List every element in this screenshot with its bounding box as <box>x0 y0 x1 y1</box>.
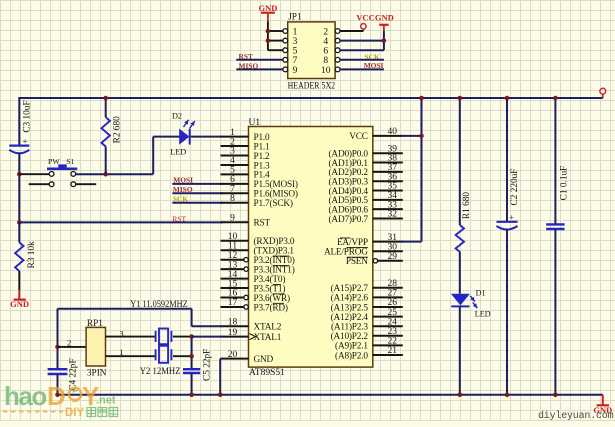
U1 pin 15 stub <box>221 287 249 289</box>
JP1 pin 4 <box>335 38 340 43</box>
resistor R2 680 <box>102 117 110 146</box>
node junction C4/ground <box>55 393 60 398</box>
wire ground bottom rail <box>57 394 603 396</box>
JP1 pin 8 <box>335 57 340 62</box>
svg-text:R3 10k: R3 10k <box>27 241 37 268</box>
wire S1 to R2 junction and LED corner <box>76 173 153 175</box>
wire R2 to switch row <box>105 147 107 175</box>
wire XTAL2 from U1 pin18 <box>192 325 223 327</box>
wire pin 31 to VCC drop <box>402 241 422 243</box>
wire C4 to ground rail <box>57 375 59 395</box>
wire JP1 pin6 stub <box>340 49 384 51</box>
svg-text:28: 28 <box>388 279 398 289</box>
svg-text:(RXD)P3.0: (RXD)P3.0 <box>254 236 295 247</box>
svg-text:GND: GND <box>10 299 29 309</box>
wire RP1 pin 2 <box>58 346 87 348</box>
wire JP1 pin9 MISO <box>236 68 283 70</box>
JP1 pin 1 <box>283 29 288 34</box>
ground GND bottom-right <box>602 395 604 405</box>
svg-text:2: 2 <box>67 337 71 347</box>
U1 pin 40 stub <box>373 135 403 137</box>
svg-text:4: 4 <box>323 37 328 47</box>
svg-text:R2 680: R2 680 <box>113 116 123 143</box>
svg-text:ALE/PROG: ALE/PROG <box>324 248 368 258</box>
wire JP1 pin7 RST <box>236 59 283 61</box>
wire GND stem to pins 1/3/5 <box>267 22 269 51</box>
node junction pin1 <box>266 29 271 34</box>
U1 pin 37 stub <box>373 171 403 173</box>
wire S1 lower-left stub <box>29 183 49 185</box>
wire rail to C2 <box>506 98 508 222</box>
JP1 pin 10 <box>335 67 340 72</box>
wire corner up to LED row <box>152 137 154 175</box>
U1 pin 14 stub <box>221 278 249 280</box>
svg-text:30: 30 <box>388 242 398 252</box>
svg-text:XTAL2: XTAL2 <box>254 323 282 333</box>
node junction C1/ground <box>553 393 558 398</box>
U1 pin 27 stub <box>373 296 403 298</box>
svg-text:+: + <box>509 212 514 222</box>
U1 pin 24 stub <box>373 325 403 327</box>
node VCC terminal top-right <box>602 94 604 98</box>
svg-text:LED: LED <box>170 148 186 157</box>
resistor-pack RP1 3PIN <box>86 327 105 366</box>
svg-text:R1 680: R1 680 <box>462 192 472 219</box>
svg-text:GND: GND <box>258 3 277 13</box>
U1 pin 39 stub <box>373 152 403 154</box>
U1 pin 34 stub <box>373 199 403 201</box>
wire VCC vertical to pin40/pin31 <box>421 98 423 242</box>
wire MOSI to U1 pin 6 <box>172 183 222 185</box>
svg-text:S1: S1 <box>66 157 74 166</box>
capacitor C1 0.1uF <box>546 223 564 225</box>
U1 overline RD <box>273 302 284 304</box>
svg-text:25: 25 <box>388 308 398 318</box>
svg-text:XTAL1: XTAL1 <box>254 333 282 343</box>
svg-text:7: 7 <box>293 56 298 66</box>
svg-text:(A11)P2.3: (A11)P2.3 <box>331 322 368 333</box>
svg-text:26: 26 <box>388 298 398 308</box>
node junction rail/VCC drop <box>419 96 424 101</box>
U1 pin 23 stub <box>373 335 403 337</box>
svg-text:LED: LED <box>475 309 491 318</box>
svg-text:3PIN: 3PIN <box>87 369 107 379</box>
U1 pin 26 stub <box>373 306 403 308</box>
U1 overline INT0 <box>273 255 290 257</box>
wire RP1 pin 1 <box>106 355 156 357</box>
svg-text:P1.5(MOSI): P1.5(MOSI) <box>254 179 298 190</box>
wire XTAL1 to U1 pin19 <box>192 336 223 338</box>
U1 pin 2 stub <box>221 145 249 147</box>
svg-text:24: 24 <box>388 317 398 327</box>
op-amp U1 AT89S51 body <box>249 127 373 368</box>
svg-text:VCC: VCC <box>356 13 374 23</box>
svg-text:(A15)P2.7: (A15)P2.7 <box>331 283 369 294</box>
svg-text:21: 21 <box>388 346 398 356</box>
svg-text:GND: GND <box>254 355 274 365</box>
wire rail to C1 <box>554 98 556 224</box>
node junction rail/R2 <box>103 96 108 101</box>
wire crystal right plates to node <box>173 336 192 338</box>
svg-text:32: 32 <box>388 210 398 220</box>
svg-text:P3.6(WR): P3.6(WR) <box>254 293 290 304</box>
wire JP1 pin4 stub <box>340 40 384 42</box>
wire JP1 pin1 stub <box>268 30 283 32</box>
svg-text:3: 3 <box>119 328 123 338</box>
U1 pin 5 stub <box>221 173 249 175</box>
wire MISO to U1 pin 7 <box>172 192 222 194</box>
node junction XTAL1 <box>189 334 194 339</box>
svg-text:+: + <box>23 136 28 146</box>
node junction rail/C2 <box>505 96 510 101</box>
resistor R3 10k <box>15 242 23 271</box>
wire JP1 pin10 MOSI <box>340 68 384 70</box>
svg-text:10: 10 <box>321 66 331 76</box>
wire switch row to S1 <box>19 173 49 175</box>
svg-text:22: 22 <box>388 337 398 347</box>
svg-text:9: 9 <box>230 214 235 224</box>
U1 pin 35 stub <box>373 190 403 192</box>
U1 pin 38 stub <box>373 162 403 164</box>
svg-text:23: 23 <box>388 327 398 337</box>
ground GND below R3 <box>18 290 20 299</box>
node junction RST rail <box>17 220 22 225</box>
U1 pin 4 stub <box>221 164 249 166</box>
U1 pin 25 stub <box>373 316 403 318</box>
svg-text:HEADER 5X2: HEADER 5X2 <box>288 82 336 92</box>
node junction RP1 pin2 <box>55 345 60 350</box>
node junction S1/R2 <box>103 172 108 177</box>
watermark diyleyuan.com <box>538 411 613 422</box>
svg-text:40: 40 <box>388 127 398 137</box>
U1 pin 36 stub <box>373 180 403 182</box>
svg-text:(A10)P2.2: (A10)P2.2 <box>331 331 369 342</box>
node junction C3/S1 <box>17 172 22 177</box>
wire C5 to ground rail <box>191 374 193 395</box>
U1 overline T1 <box>273 283 281 285</box>
wire C3 to switch row <box>18 153 20 223</box>
U1 XTAL1 clock mark <box>250 334 256 340</box>
U1 pin 16 stub <box>221 297 244 299</box>
resistor R1 680 <box>456 225 464 252</box>
node junction pin20/ground <box>218 393 223 398</box>
svg-text:2: 2 <box>323 27 328 37</box>
svg-text:8: 8 <box>230 194 235 204</box>
svg-text:29: 29 <box>388 252 398 262</box>
node junction D1/ground <box>458 393 463 398</box>
svg-text:1: 1 <box>119 347 123 357</box>
svg-text:P3.7(RD): P3.7(RD) <box>254 302 288 313</box>
svg-text:C2 220uF: C2 220uF <box>510 169 520 206</box>
svg-text:31: 31 <box>388 233 398 243</box>
svg-text:P3.4(T0): P3.4(T0) <box>254 274 286 285</box>
node junction pin3 <box>266 38 271 43</box>
U1 pin 8 stub <box>221 202 249 204</box>
svg-text:P3.2(INT0): P3.2(INT0) <box>254 255 295 266</box>
svg-text:P1.7(SCK): P1.7(SCK) <box>254 198 293 209</box>
JP1 pin 6 <box>335 48 340 53</box>
wire D1 to ground rail <box>459 306 461 394</box>
U1 pin 19 stub <box>221 336 249 338</box>
wire XTAL1 node vertical <box>191 337 193 369</box>
node junction rail/R1 <box>458 96 463 101</box>
U1 overline PROG <box>347 247 368 249</box>
U1 pin 7 stub <box>221 192 249 194</box>
svg-text:6: 6 <box>323 47 328 57</box>
wire C2 to ground rail <box>506 229 508 395</box>
wire RP1 pin 3 <box>106 336 156 338</box>
svg-text:(A12)P2.4: (A12)P2.4 <box>331 312 369 323</box>
U1 pin 22 stub <box>373 344 403 346</box>
svg-text:Y2 12MHZ: Y2 12MHZ <box>140 367 181 377</box>
svg-text:9: 9 <box>293 66 298 76</box>
svg-text:D2: D2 <box>172 112 182 121</box>
U1 pin 29 stub <box>373 259 377 263</box>
node junction rail/C1 <box>553 96 558 101</box>
svg-text:19: 19 <box>228 328 238 338</box>
svg-text:18: 18 <box>228 318 238 328</box>
svg-text:C3 10uF: C3 10uF <box>22 100 32 132</box>
U1 pin 9 stub <box>221 221 249 223</box>
crystal Y2 <box>155 349 157 360</box>
JP1 pin 3 <box>283 38 288 43</box>
svg-text:P3.3(INT1): P3.3(INT1) <box>254 264 295 275</box>
wire SCK to U1 pin 8 <box>172 202 222 204</box>
svg-text:VCC: VCC <box>349 132 368 142</box>
U1 pin 1 stub <box>221 136 249 138</box>
wire to LED D2 anode <box>153 136 179 138</box>
wire rail to R1 <box>459 98 461 225</box>
U1 pin 33 stub <box>373 208 403 210</box>
wire R3 to ground <box>18 271 20 290</box>
node junction C5/ground <box>189 393 194 398</box>
U1 pin 28 stub <box>373 287 403 289</box>
wire top rail to R2 <box>105 98 107 117</box>
U1 pin 3 stub <box>221 155 249 157</box>
svg-text:(A8)P2.0: (A8)P2.0 <box>335 350 368 361</box>
U1 overline INT1 <box>273 265 290 267</box>
wire JP1 pin8 SCK <box>340 59 384 61</box>
capacitor C4 22pF <box>48 368 68 370</box>
capacitor C5 22pF <box>183 368 200 370</box>
svg-text:U1: U1 <box>249 118 261 128</box>
JP1 pin 5 <box>283 48 288 53</box>
svg-text:17: 17 <box>228 298 238 308</box>
U1 pin 10 stub <box>221 240 249 242</box>
svg-text:C5 22pF: C5 22pF <box>202 349 212 381</box>
svg-text:DIY: DIY <box>65 407 85 419</box>
wire VCC top rail <box>19 97 603 99</box>
U1 pin 31 stub <box>373 241 403 243</box>
JP1 pin 2 <box>335 29 340 34</box>
U1 pin 12 stub <box>221 259 244 261</box>
svg-text:RST: RST <box>254 219 271 229</box>
U1 overline PSEN <box>347 256 368 258</box>
U1 overline EA <box>340 237 351 239</box>
wire RST rail <box>19 221 222 223</box>
svg-text:3: 3 <box>293 37 298 47</box>
U1 pin 18 stub <box>221 325 249 327</box>
svg-text:RST: RST <box>172 215 186 224</box>
node junction Y2/C5 <box>189 354 194 359</box>
wire R1 to D1 <box>459 252 461 294</box>
U1 pin 17 stub <box>221 306 244 308</box>
svg-text:27: 27 <box>388 289 398 299</box>
svg-text:D: D <box>47 381 65 411</box>
svg-text:1: 1 <box>293 27 298 37</box>
U1 pin 30 stub <box>373 250 403 252</box>
svg-text:JP1: JP1 <box>288 12 302 22</box>
svg-text:20: 20 <box>228 350 238 360</box>
svg-text:EA/VPP: EA/VPP <box>337 238 368 248</box>
JP1 pin 7 <box>283 57 288 62</box>
wire LED D2 cathode to U1 pin 1 <box>191 136 223 138</box>
svg-text:P1.6(MISO): P1.6(MISO) <box>254 189 298 200</box>
svg-text:D1: D1 <box>476 289 486 298</box>
node junction C2/ground <box>505 393 510 398</box>
U1 pin 32 stub <box>373 218 403 220</box>
U1 overline WR <box>273 293 285 295</box>
capacitor C3 10uF <box>9 145 29 147</box>
svg-text:PSEN: PSEN <box>346 257 368 267</box>
U1 pin 20 stub <box>221 358 249 360</box>
wire JP1 pin3 stub <box>268 40 283 42</box>
connector JP1 HEADER 5X2 <box>288 22 335 79</box>
svg-text:(A14)P2.6: (A14)P2.6 <box>331 293 369 304</box>
svg-text:C1 0.1uF: C1 0.1uF <box>560 166 570 201</box>
JP1 pin 9 <box>283 67 288 72</box>
wire JP1 pin2 to VCC <box>340 30 363 32</box>
svg-text:GND: GND <box>375 13 394 23</box>
wire XTAL2 branch down to C4 <box>57 309 59 369</box>
node junction pin4/GND <box>382 38 387 43</box>
svg-text:(A9)P2.1: (A9)P2.1 <box>335 341 368 352</box>
svg-text:RP1: RP1 <box>87 319 103 329</box>
wire S1 lower-right stub <box>76 183 96 185</box>
svg-text:(AD7)P0.7: (AD7)P0.7 <box>329 214 369 225</box>
watermark logo haoDIY.net <box>3 381 133 427</box>
svg-text:(TXD)P3.1: (TXD)P3.1 <box>254 246 295 257</box>
wire left branch from top rail down to C3 <box>18 97 20 145</box>
svg-text:.net: .net <box>96 395 116 407</box>
crystal Y1 <box>155 331 157 342</box>
svg-text:5: 5 <box>293 47 298 57</box>
U1 pin 13 stub <box>221 268 244 270</box>
U1 pin 11 stub <box>221 249 249 251</box>
wire C1 to ground rail <box>554 230 556 395</box>
svg-text:Y1 11.0592MHZ: Y1 11.0592MHZ <box>130 300 188 310</box>
svg-text:P3.5(T1): P3.5(T1) <box>254 283 286 294</box>
U1 pin 6 stub <box>221 183 249 185</box>
wire GND stem pins 4/6 <box>383 31 385 50</box>
svg-text:(A13)P2.5: (A13)P2.5 <box>331 302 369 313</box>
wire RST to R3 <box>18 222 20 242</box>
svg-text:hao: hao <box>4 381 46 411</box>
wire JP1 pin5 stub <box>268 49 283 51</box>
node junction pin40 <box>419 134 424 139</box>
svg-text:AT89S51: AT89S51 <box>249 368 285 378</box>
U1 pin 21 stub <box>373 354 403 356</box>
wire U1 pin20 GND drop <box>220 358 222 360</box>
svg-text:8: 8 <box>323 56 328 66</box>
wire pin 40 to VCC drop <box>402 135 422 137</box>
